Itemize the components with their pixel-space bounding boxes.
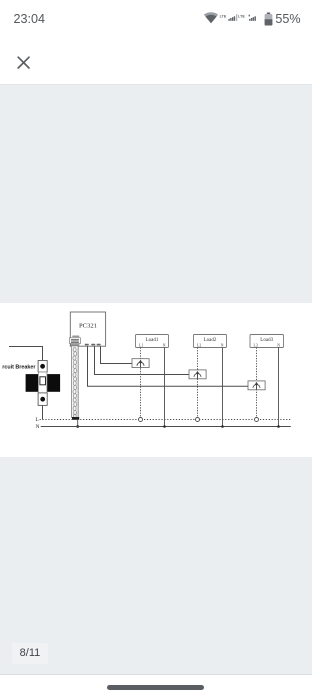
battery icon	[267, 13, 270, 15]
svg-text:N: N	[36, 424, 40, 430]
wifi icon	[204, 12, 218, 23]
wire supply feed to breaker	[9, 347, 43, 361]
svg-text:LTE: LTE	[238, 14, 245, 18]
N bus label	[36, 424, 40, 430]
wire CT2 sense	[95, 346, 190, 374]
power cable braided pair	[71, 346, 79, 420]
node Load1-L junction	[139, 418, 143, 422]
CT sensor CT3	[248, 381, 265, 390]
wire Load1 line (dashed)	[140, 348, 142, 418]
terminal label CT2	[91, 344, 95, 346]
terminal label CT3	[97, 344, 101, 346]
wire Load2 line (dashed)	[197, 348, 199, 418]
status bar time	[14, 13, 46, 26]
svg-text:N: N	[221, 343, 224, 347]
CT sensor CT1	[132, 359, 149, 368]
svg-text:N: N	[163, 343, 166, 347]
L bus (dotted)	[40, 419, 292, 421]
wire Load1 neutral	[164, 348, 166, 427]
wire CT1 sense	[101, 346, 133, 363]
wire cable neutral drop	[77, 420, 79, 427]
svg-text:L3: L3	[254, 343, 258, 347]
app bar divider	[0, 84, 312, 85]
node Load3-L junction	[255, 418, 259, 422]
upper grey backdrop	[0, 85, 312, 303]
meter PC321	[70, 312, 105, 346]
svg-text:Load3: Load3	[260, 338, 273, 343]
svg-text:Load2: Load2	[204, 338, 217, 343]
status bar icons	[198, 6, 308, 30]
wire Load3 line (dashed)	[256, 348, 258, 418]
svg-text:N: N	[277, 343, 280, 347]
gesture bar	[107, 685, 204, 691]
svg-text:PC321: PC321	[79, 322, 97, 329]
node Load2-L junction	[196, 418, 200, 422]
load Load2	[194, 335, 227, 348]
CT sensor CT2	[189, 370, 206, 379]
wire CT3 sense	[88, 346, 249, 386]
svg-text:LTE: LTE	[220, 14, 227, 18]
circuit breaker label	[2, 365, 36, 371]
page counter chip 8/11	[12, 643, 47, 664]
svg-text:Load1: Load1	[146, 338, 159, 343]
white photo band	[0, 303, 312, 457]
signal bars sim1	[228, 19, 229, 21]
svg-text:L1: L1	[139, 343, 143, 347]
small mark	[249, 15, 250, 17]
svg-text:L: L	[36, 417, 39, 423]
node cable-N junction	[76, 425, 79, 428]
meter connector label	[72, 336, 79, 338]
meter connector block	[70, 338, 81, 346]
node Load2-N junction	[221, 425, 224, 428]
L bus label	[36, 417, 39, 423]
circuit breaker	[26, 361, 61, 406]
close (X) button	[16, 55, 32, 71]
terminal label CT1	[85, 344, 89, 346]
N bus	[41, 426, 291, 428]
lower grey backdrop	[0, 457, 312, 674]
svg-text:rcuit Breaker: rcuit Breaker	[2, 365, 36, 371]
wire breaker to L bus	[42, 405, 44, 419]
wire Load2 neutral	[222, 348, 224, 427]
wire Load3 neutral	[278, 348, 280, 427]
node Load1-N junction	[163, 425, 166, 428]
battery percent text	[275, 13, 300, 26]
svg-text:L2: L2	[197, 343, 201, 347]
load Load1	[136, 335, 169, 348]
node Load3-N junction	[277, 425, 280, 428]
load Load3	[250, 335, 284, 348]
signal bars sim2	[249, 19, 250, 21]
sim separator	[235, 14, 238, 21]
bottom white strip	[0, 674, 312, 700]
